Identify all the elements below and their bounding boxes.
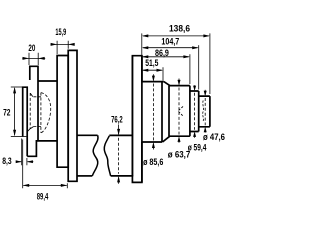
dim 8,3 extensions: [22, 139, 27, 166]
shaft right segment bottom edge: [111, 175, 134, 177]
hidden squiggle in d47.6 (dashed): [202, 101, 205, 122]
dim 8,3 arrow lines: [16, 161, 33, 163]
svg-text:51,5: 51,5: [145, 58, 159, 69]
dim 89,4 line: [23, 184, 66, 186]
hidden bore horizontals (dashed): [33, 97, 41, 127]
hidden bore bulge (dashed): [41, 93, 51, 133]
cone top slant: [164, 82, 170, 86]
arrow dim89,4 right: [61, 184, 68, 187]
dim 104,7 right extension: [198, 45, 200, 89]
arrow dim86,9 left: [142, 55, 149, 58]
dim 20 line: [22, 57, 45, 59]
dia 85,6 bottom stem: [152, 144, 154, 150]
dim 86,9 line: [143, 56, 189, 58]
dia 63,7 bottom stem: [178, 138, 180, 143]
dim 89,4 extensions: [23, 140, 68, 189]
dim 104,7 line: [143, 47, 198, 49]
arrow dim86,9 right: [183, 55, 190, 58]
svg-text:20: 20: [28, 43, 35, 54]
pulley lower step below flange: [27, 141, 57, 156]
rim bar1 (15,9 wide): [57, 56, 68, 168]
shaft right segment top edge: [109, 134, 132, 136]
arrow dia47,6 up: [204, 127, 207, 132]
arrow dim8,3 right: [27, 160, 33, 163]
arrow dim72 down: [13, 130, 16, 137]
dim 76,2 top stem: [118, 125, 120, 135]
cylinder d47.6 outline: [199, 96, 210, 127]
dia 59,4 top stem: [194, 85, 196, 90]
svg-text:15,9: 15,9: [55, 27, 66, 38]
hidden bore right profile (dashed): [40, 93, 42, 133]
dim 15,9 extensions: [57, 41, 68, 54]
arrow dia59,4 up: [193, 132, 196, 137]
dim 138,6 right extension: [209, 33, 211, 94]
svg-text:76,2: 76,2: [111, 115, 123, 126]
svg-text:8,3: 8,3: [2, 156, 11, 167]
hidden mark in d63.7 (dashed): [178, 107, 183, 117]
dim 15,9 line: [51, 43, 75, 45]
dim 138,6 line: [143, 35, 209, 37]
dia 47,6 bottom stem: [204, 128, 206, 132]
pulley hub top edge: [38, 80, 57, 82]
svg-text:ø 47,6: ø 47,6: [203, 132, 225, 143]
arrow dim138,6 left: [142, 34, 149, 37]
svg-text:138,6: 138,6: [169, 24, 190, 35]
arrow dim104,7 left: [142, 46, 149, 49]
arrow dia63,7 up: [178, 136, 181, 142]
cylinder d59.4 outline: [190, 91, 199, 132]
break line right (S-curve): [104, 136, 110, 176]
right flange: [132, 56, 142, 183]
arrow dia85,6 up: [152, 142, 155, 148]
arrow dim104,7 right: [192, 46, 199, 49]
arrow dia85,6 down: [152, 76, 155, 82]
dim 76,2 bottom stem: [118, 177, 120, 183]
arrow dim76,2 up: [117, 176, 120, 183]
svg-text:72: 72: [3, 108, 10, 119]
svg-text:104,7: 104,7: [161, 37, 179, 48]
svg-text:ø 85,6: ø 85,6: [143, 157, 163, 168]
arrow dim8,3 left: [16, 160, 22, 163]
pulley disc (20 wide): [30, 66, 38, 141]
dim 76,2 dashed centreline: [118, 138, 120, 174]
arrow dim15,9 left: [51, 43, 58, 46]
dim 20 extensions: [29, 53, 38, 65]
hidden bore chamfer dashes: [28, 93, 34, 131]
cylinder d85.6 right face: [161, 82, 163, 142]
dia 63,7 top stem: [178, 79, 180, 85]
dia 59,4 bottom stem: [194, 133, 196, 138]
dim 72 line: [14, 88, 16, 135]
dia 59,4 dashed line: [194, 93, 196, 130]
pulley flange (8,3 wide): [23, 87, 28, 156]
break line left (S-curve): [92, 135, 98, 176]
hidden bore left vertical (dashed): [29, 93, 31, 129]
dim 72 extension top: [11, 86, 22, 88]
rim bar2: [68, 50, 77, 181]
dia 85,6 dashed line: [152, 84, 154, 141]
cone bottom slant: [163, 136, 170, 142]
dim 51,5 line: [143, 69, 162, 71]
arrow dim20 left: [23, 57, 30, 60]
arrow dia63,7 down: [178, 80, 181, 86]
arrow dim20 right: [38, 57, 45, 60]
right dims common left extension: [141, 33, 143, 55]
right flange inner edges: [132, 56, 142, 183]
cylinder d85.6 bottom edge: [142, 141, 162, 143]
shaft left segment top edge: [77, 134, 98, 136]
arrow dim51,5 right: [157, 69, 164, 72]
dia 47,6 dashed line: [204, 98, 206, 125]
cylinder d85.6 top edge: [142, 81, 164, 83]
shaft left segment bottom edge: [77, 175, 92, 177]
arrow dia47,6 down: [204, 91, 207, 96]
dia 63,7 dashed line: [178, 88, 180, 135]
arrow dim138,6 right: [203, 34, 210, 37]
arrow dia59,4 down: [193, 86, 196, 91]
arrow dim51,5 left: [142, 69, 149, 72]
dim 86,9 right extension: [189, 54, 191, 84]
cylinder d63.7 outline: [169, 86, 190, 137]
arrow dim72 up: [13, 87, 16, 94]
dim 51,5 right extension: [162, 67, 164, 80]
dim 72 extension bottom: [11, 136, 27, 138]
svg-text:ø 59,4: ø 59,4: [188, 143, 207, 154]
dia 85,6 top stem: [152, 74, 154, 80]
dia 47,6 top stem: [204, 90, 206, 95]
arrow dim15,9 right: [68, 43, 75, 46]
arrow dim76,2 down: [117, 129, 120, 136]
arrow dim89,4 left: [23, 184, 30, 187]
svg-text:89,4: 89,4: [37, 191, 49, 202]
